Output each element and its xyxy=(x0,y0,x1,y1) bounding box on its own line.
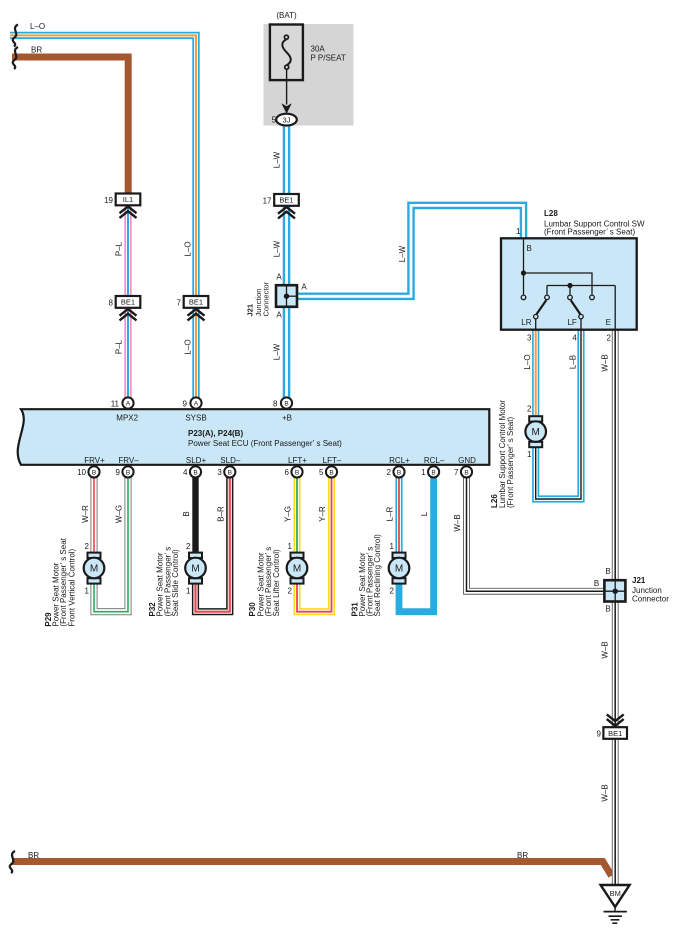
labels B in bottom pins xyxy=(92,469,469,476)
svg-text:L: L xyxy=(420,511,429,516)
svg-text:BE1: BE1 xyxy=(279,196,293,205)
svg-text:2: 2 xyxy=(186,542,191,551)
svg-text:SYSB: SYSB xyxy=(185,414,206,423)
svg-text:M: M xyxy=(532,427,540,438)
node 3J ellipse xyxy=(276,114,297,126)
svg-text:B: B xyxy=(295,469,299,476)
svg-text:9: 9 xyxy=(183,399,188,408)
wire BR top-left to IL1 xyxy=(12,57,128,194)
chevron above BE1 pin 9 pointing down xyxy=(607,714,624,725)
svg-text:B: B xyxy=(126,469,130,476)
svg-text:P23(A), P24(B): P23(A), P24(B) xyxy=(188,429,243,438)
svg-text:BR: BR xyxy=(31,46,42,55)
motor P31 xyxy=(389,553,410,584)
svg-text:Seat Reclining Control): Seat Reclining Control) xyxy=(373,534,382,617)
svg-text:P–L: P–L xyxy=(115,339,124,354)
svg-text:B: B xyxy=(594,579,599,588)
fuse 30A P P/SEAT box xyxy=(270,25,303,81)
svg-text:7: 7 xyxy=(454,468,459,477)
chevron below IL1 xyxy=(120,207,137,218)
svg-text:E: E xyxy=(606,318,611,327)
ECU top pin 11 A xyxy=(122,397,133,408)
svg-text:A: A xyxy=(126,400,131,407)
svg-text:Seat Lifter Control): Seat Lifter Control) xyxy=(272,549,281,616)
svg-text:10: 10 xyxy=(77,468,86,477)
svg-text:M: M xyxy=(90,564,98,575)
svg-text:B–R: B–R xyxy=(217,506,226,522)
wire L-O L28 pin3 to motor L26 xyxy=(532,329,539,417)
break squiggle bottom-left BR xyxy=(10,851,15,873)
svg-text:W–B: W–B xyxy=(601,354,610,371)
wire Y-G pin6 to motor P30 xyxy=(293,477,300,553)
svg-text:17: 17 xyxy=(263,196,272,205)
svg-text:W–R: W–R xyxy=(81,505,90,523)
svg-text:L–R: L–R xyxy=(386,506,395,521)
svg-text:BE1: BE1 xyxy=(121,298,135,307)
svg-text:Connector: Connector xyxy=(632,595,669,604)
svg-text:L–O: L–O xyxy=(184,339,193,354)
connector BE1 box pin 9 bottom right xyxy=(603,727,627,739)
svg-text:11: 11 xyxy=(111,399,120,408)
svg-text:SLD+: SLD+ xyxy=(186,456,207,465)
wire L-W from junction J21 to L28 pin 1 xyxy=(297,205,524,296)
svg-text:3: 3 xyxy=(217,468,222,477)
svg-text:BR: BR xyxy=(517,851,528,860)
svg-text:2: 2 xyxy=(527,404,532,413)
svg-text:8: 8 xyxy=(273,399,278,408)
motor P30 xyxy=(287,553,308,584)
wire B pin4 to motor P32 xyxy=(192,477,198,553)
junction connector J21 left xyxy=(276,285,298,307)
svg-text:6: 6 xyxy=(285,468,290,477)
svg-text:W–B: W–B xyxy=(453,514,462,531)
svg-text:(Front Passenger’ s Seat): (Front Passenger’ s Seat) xyxy=(544,228,635,237)
wire W-R pin10 to motor P29 xyxy=(90,477,97,553)
svg-text:RCL+: RCL+ xyxy=(389,456,410,465)
wire L-O top-left horizontal down to SYSB pin 9 xyxy=(10,35,196,397)
svg-text:Seat Slide Control): Seat Slide Control) xyxy=(171,549,180,616)
svg-text:W–B: W–B xyxy=(601,641,610,658)
svg-text:L–W: L–W xyxy=(273,151,282,168)
wire Y-R motor P30 to pin 5 xyxy=(297,477,332,611)
L28 internal switch circuit xyxy=(521,239,615,330)
svg-text:B: B xyxy=(397,469,401,476)
break squiggle top-left L-O xyxy=(13,25,18,47)
svg-text:B: B xyxy=(527,244,532,253)
wire W-B L28 pin2 E to ground xyxy=(612,329,619,885)
svg-text:1: 1 xyxy=(390,542,395,551)
wire W-G motor P29 to pin 9 xyxy=(94,477,128,611)
wire L-R pin2 to motor P31 xyxy=(395,477,402,553)
svg-text:M: M xyxy=(191,564,199,575)
svg-text:L–O: L–O xyxy=(523,354,532,369)
svg-text:W–G: W–G xyxy=(115,505,124,523)
svg-text:9: 9 xyxy=(596,730,601,739)
svg-text:L–B: L–B xyxy=(569,355,578,369)
svg-text:2: 2 xyxy=(288,587,293,596)
svg-text:2: 2 xyxy=(85,542,90,551)
svg-text:BM: BM xyxy=(610,889,621,898)
ECU bottom pin circles xyxy=(88,466,472,477)
svg-text:B: B xyxy=(182,511,191,516)
svg-text:1: 1 xyxy=(85,587,90,596)
svg-text:B: B xyxy=(605,605,610,614)
svg-text:2: 2 xyxy=(390,587,395,596)
svg-text:LFT+: LFT+ xyxy=(288,456,307,465)
svg-text:B: B xyxy=(464,469,468,476)
wire B-R motor P32 to pin 3 xyxy=(196,477,230,611)
svg-text:1: 1 xyxy=(288,542,293,551)
svg-text:7: 7 xyxy=(177,298,182,307)
svg-text:A: A xyxy=(276,273,282,282)
connector BE1 box pin 7 xyxy=(184,296,209,308)
svg-text:LFT–: LFT– xyxy=(323,456,342,465)
ground BM triangle xyxy=(601,885,630,923)
svg-text:5: 5 xyxy=(272,115,277,124)
svg-text:2: 2 xyxy=(607,334,612,343)
svg-text:BE1: BE1 xyxy=(608,729,622,738)
svg-text:B: B xyxy=(329,469,333,476)
svg-text:(BAT): (BAT) xyxy=(276,11,297,20)
svg-text:MPX2: MPX2 xyxy=(116,414,138,423)
connector BE1 box pin 17 xyxy=(274,194,299,206)
svg-text:FRV–: FRV– xyxy=(118,456,139,465)
svg-text:Front Vertical Control): Front Vertical Control) xyxy=(67,548,76,626)
svg-text:+B: +B xyxy=(282,414,292,423)
svg-text:M: M xyxy=(293,564,301,575)
svg-text:LR: LR xyxy=(521,318,531,327)
chevron below BE1 pin 7 xyxy=(188,309,205,320)
fuse element symbol xyxy=(282,35,290,69)
wire W-B GND pin7 to junction J21 right xyxy=(467,477,605,591)
wire P-L from IL1 to MPX2 pin 11 xyxy=(124,205,131,398)
ECU box P23(A) P24(B) xyxy=(18,409,490,465)
svg-text:1: 1 xyxy=(516,227,521,236)
svg-text:B: B xyxy=(193,469,197,476)
svg-text:3J: 3J xyxy=(283,115,291,124)
svg-text:IL1: IL1 xyxy=(123,195,133,204)
svg-text:M: M xyxy=(395,564,403,575)
break squiggle top-left BR xyxy=(13,47,18,69)
L28 switch box xyxy=(501,238,637,329)
fuse block gray background xyxy=(264,24,354,126)
ECU top pin 8 B xyxy=(281,397,292,408)
svg-text:2: 2 xyxy=(387,468,392,477)
svg-text:L–W: L–W xyxy=(398,245,407,262)
chevron below BE1 pin 8 xyxy=(120,309,137,320)
svg-text:5: 5 xyxy=(319,468,324,477)
svg-text:B: B xyxy=(92,469,96,476)
svg-text:P P/SEAT: P P/SEAT xyxy=(311,54,346,63)
connector IL1 box pin 19 xyxy=(116,194,141,206)
svg-text:B: B xyxy=(605,567,610,576)
svg-text:B: B xyxy=(284,400,288,407)
wire L-W from fuse 3J down to +B pin 8 xyxy=(283,124,291,398)
svg-text:Y–G: Y–G xyxy=(284,506,293,522)
svg-text:Y–R: Y–R xyxy=(318,506,327,522)
svg-text:Power Seat ECU (Front Passenge: Power Seat ECU (Front Passenger’ s Seat) xyxy=(188,439,342,448)
motor L26 xyxy=(525,416,546,447)
wire BR bottom horizontal to ground xyxy=(12,862,612,876)
svg-text:A: A xyxy=(194,400,199,407)
motor P32 xyxy=(185,553,206,584)
svg-text:FRV+: FRV+ xyxy=(84,456,105,465)
junction connector J21 right xyxy=(604,580,625,602)
svg-text:SLD–: SLD– xyxy=(220,456,241,465)
wire fuse to 3J with arrow xyxy=(281,69,291,114)
svg-text:BR: BR xyxy=(28,851,39,860)
svg-text:P–L: P–L xyxy=(115,241,124,256)
svg-text:A: A xyxy=(301,283,307,292)
svg-text:3: 3 xyxy=(527,334,532,343)
svg-text:J21: J21 xyxy=(632,576,646,585)
svg-text:A: A xyxy=(276,311,282,320)
svg-text:30A: 30A xyxy=(311,44,326,53)
svg-text:1: 1 xyxy=(421,468,426,477)
svg-text:L28: L28 xyxy=(544,209,558,218)
svg-text:Connector: Connector xyxy=(262,281,271,316)
svg-text:19: 19 xyxy=(104,196,113,205)
svg-text:L–W: L–W xyxy=(273,343,282,360)
svg-text:RCL–: RCL– xyxy=(424,456,445,465)
svg-text:4: 4 xyxy=(183,468,188,477)
svg-text:9: 9 xyxy=(116,468,121,477)
svg-text:L–O: L–O xyxy=(30,22,45,31)
svg-text:W–B: W–B xyxy=(601,784,610,801)
ECU top pin 9 A xyxy=(190,397,201,408)
svg-text:B: B xyxy=(431,469,435,476)
svg-text:1: 1 xyxy=(186,587,191,596)
svg-text:4: 4 xyxy=(572,334,577,343)
svg-text:BE1: BE1 xyxy=(189,298,203,307)
wire L-B motor L26 to L28 pin4 xyxy=(536,329,581,499)
svg-text:1: 1 xyxy=(527,450,532,459)
chevron below BE1 pin 17 xyxy=(278,207,295,218)
svg-text:LF: LF xyxy=(567,318,576,327)
svg-text:GND: GND xyxy=(458,456,476,465)
wire L motor P31 to pin 1 xyxy=(399,477,434,611)
svg-text:L–W: L–W xyxy=(273,240,282,257)
svg-text:B: B xyxy=(228,469,232,476)
motor P29 xyxy=(84,553,105,584)
connector BE1 box pin 8 xyxy=(116,296,141,308)
svg-text:(Front Passenger’ s Seat): (Front Passenger’ s Seat) xyxy=(506,417,515,508)
svg-text:L–O: L–O xyxy=(184,241,193,256)
svg-text:8: 8 xyxy=(109,298,114,307)
labels M in motors xyxy=(90,564,403,575)
